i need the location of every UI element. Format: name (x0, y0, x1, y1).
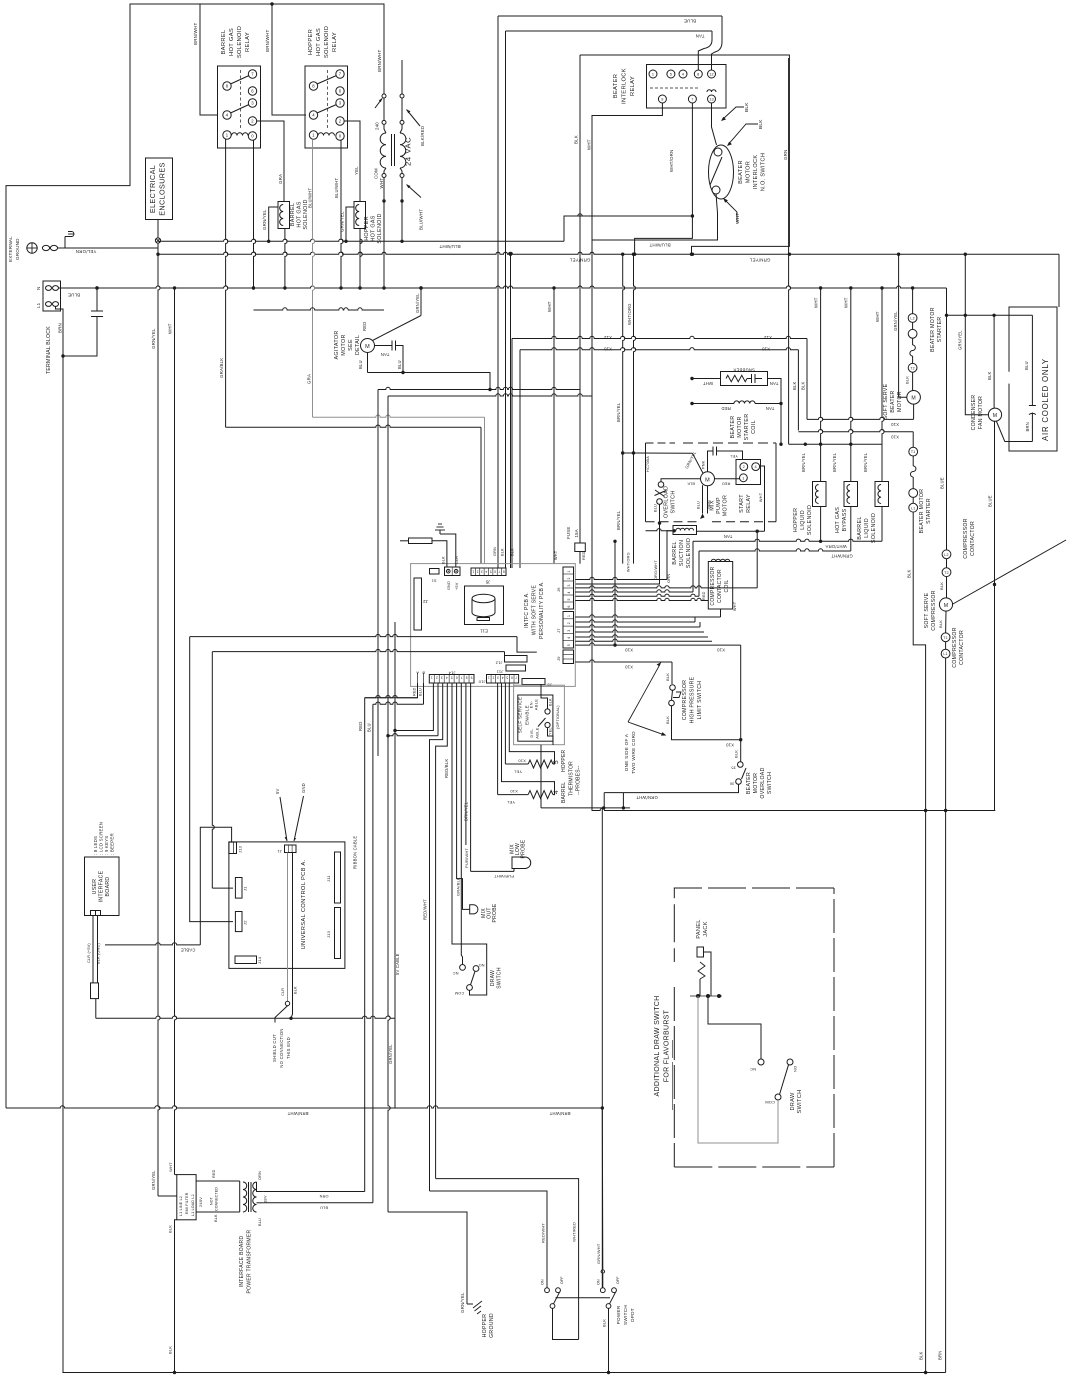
svg-text:RED: RED (721, 406, 730, 411)
svg-text:RED: RED (702, 591, 706, 600)
wire run y417 GRA (313, 415, 485, 417)
svg-text:BRN: BRN (1025, 422, 1030, 431)
resistor panel jack (698, 962, 705, 979)
svg-text:ORN: ORN (319, 1194, 328, 1198)
probe mix low (471, 857, 531, 871)
wire J14 pin7 to draw switch NC (461, 683, 462, 965)
wire overload to bus GRN/WHT (604, 784, 738, 792)
capacitor agitator (375, 345, 393, 347)
wire relay K1 pin 1 GRA/BLK down (226, 139, 228, 427)
svg-text:L1 LINE L2: L1 LINE L2 (179, 1196, 183, 1216)
wire hook to relay pin 12 (712, 16, 723, 70)
svg-text:J6: J6 (556, 587, 561, 592)
label box ELECTRICAL ENCLOSURES (146, 158, 173, 220)
svg-text:TAN: TAN (766, 406, 775, 411)
svg-text:240: 240 (375, 122, 380, 130)
svg-text:BRN/WHT: BRN/WHT (549, 1111, 570, 1116)
svg-text:RED/WHT: RED/WHT (541, 1223, 546, 1243)
svg-text:SOLENOID: SOLENOID (324, 26, 330, 58)
svg-text:HC70BA: HC70BA (646, 456, 650, 472)
svg-text:240V: 240V (198, 1197, 203, 1207)
wire J14 pin8 (465, 683, 467, 845)
wire BLK arrow 2 (729, 124, 759, 144)
wire pcb J2-line to control J2 (190, 634, 517, 636)
wire BLK GND (97, 916, 99, 983)
connector J7 strip (563, 612, 574, 649)
wire BLK bottom right (925, 811, 927, 1373)
wire GRN/YEL coil to bus (269, 207, 278, 241)
svg-text:ONE SIDE OF A: ONE SIDE OF A (624, 733, 629, 771)
node circled-X junction (155, 238, 160, 243)
svg-text:START: START (739, 494, 745, 513)
svg-text:SEE: SEE (348, 339, 354, 351)
svg-text:BLK: BLK (919, 1351, 924, 1360)
snubber (721, 372, 768, 386)
motor mix pump (701, 472, 715, 486)
svg-text:PERSONALITY PCB A.: PERSONALITY PCB A. (539, 581, 545, 639)
relay beater interlock (647, 65, 727, 109)
svg-text:BRN: BRN (938, 1351, 943, 1360)
svg-text:BRN/YEL: BRN/YEL (863, 452, 868, 472)
wire agitator run right (368, 373, 491, 390)
wire WHT arrow bottom (725, 200, 738, 223)
wire contactor coil bottom (720, 609, 722, 617)
svg-text:BLK: BLK (987, 371, 992, 380)
svg-text:L1: L1 (911, 506, 915, 510)
wire transformer 24V down to BLU/WHT bus (401, 178, 403, 242)
capacitor line filter (91, 316, 103, 318)
wire L1 from terminal block down left side (56, 306, 64, 1372)
svg-text:BRN/YEL: BRN/YEL (801, 452, 806, 472)
svg-text:BLUE: BLUE (988, 495, 993, 507)
svg-text:GRN/YEL: GRN/YEL (388, 1044, 393, 1064)
solenoid barrel suction (673, 526, 697, 535)
shield on uib wires (91, 983, 99, 999)
svg-text:1: 1 (742, 476, 744, 480)
svg-text:1: 1 (488, 676, 490, 680)
svg-text:BLU: BLU (697, 501, 701, 509)
svg-text:BLK: BLK (665, 673, 670, 681)
svg-text:COM: COM (455, 991, 464, 995)
svg-text:24 VAC: 24 VAC (404, 137, 413, 166)
svg-text:OVERLOAD: OVERLOAD (760, 767, 766, 798)
svg-text:CONTACTOR: CONTACTOR (959, 630, 965, 665)
wire bus lower left segment (541, 807, 630, 809)
svg-text:SWITCH: SWITCH (767, 772, 773, 794)
svg-text:1: 1 (431, 676, 433, 680)
svg-text:SUCTION: SUCTION (679, 540, 685, 566)
svg-text:WHT: WHT (844, 297, 849, 308)
pcb top fuse rect (409, 538, 433, 544)
wire bus BLU/WHT step up to interlock relay (564, 216, 694, 241)
transformer core (391, 134, 393, 166)
svg-text:BLU: BLU (419, 688, 423, 696)
svg-text:J1: J1 (243, 886, 248, 891)
wire self service feed (513, 683, 515, 685)
motor soft serve beater (907, 391, 921, 405)
connector J13 slot (335, 908, 341, 959)
svg-text:BRN/WHT: BRN/WHT (265, 30, 270, 52)
wire K2 contact 8-7 (317, 76, 337, 85)
svg-text:RED: RED (582, 551, 586, 560)
wire WHT/ORG feed right (634, 254, 636, 563)
wire J6 pin5 to solenoid return2 (575, 594, 699, 596)
wire J14 pin2 jog left (388, 734, 438, 736)
svg-text:HOT GAS: HOT GAS (371, 215, 377, 241)
svg-text:X10: X10 (510, 789, 518, 794)
wire from enclosures label to ground junction (157, 220, 159, 238)
svg-text:SWITCH: SWITCH (497, 967, 503, 989)
node hopper solenoid on bus (344, 240, 347, 243)
svg-text:BLK: BLK (442, 556, 446, 564)
svg-text:PROBE: PROBE (492, 903, 498, 922)
svg-text:J2: J2 (423, 599, 428, 604)
wire vertical GRN/YEL main (158, 243, 160, 1196)
svg-text:BLK: BLK (549, 698, 553, 706)
connector GND +5V (445, 567, 461, 576)
svg-text:COMPRESSOR: COMPRESSOR (710, 566, 716, 605)
svg-text:SOLENOID: SOLENOID (807, 505, 813, 535)
transformer tap circles (382, 94, 386, 98)
wire fan to BRN (997, 422, 1033, 442)
svg-text:GRN/YEL: GRN/YEL (958, 330, 963, 350)
wire capacitor branch (63, 317, 97, 357)
svg-text:CONTACTOR: CONTACTOR (970, 521, 976, 556)
svg-text:WHT: WHT (759, 492, 763, 502)
svg-text:X12: X12 (604, 335, 613, 340)
wire X10 line (520, 348, 798, 350)
svg-text:LIQUID: LIQUID (864, 518, 870, 538)
svg-text:ABLE: ABLE (535, 727, 540, 738)
switch self service enable (514, 685, 565, 745)
wire run y396 (388, 394, 592, 396)
hopper ground symbol (467, 1303, 473, 1305)
svg-text:PUMP: PUMP (716, 497, 722, 514)
svg-text:WHT/ORG: WHT/ORG (627, 552, 631, 572)
svg-text:L2: L2 (944, 553, 948, 557)
svg-text:6: 6 (494, 569, 496, 573)
wire coil bottom to blue bus (285, 229, 287, 289)
node transformer secondary on bus (400, 240, 403, 243)
svg-text:TAN: TAN (695, 34, 704, 39)
svg-text:X12: X12 (764, 335, 773, 340)
svg-text:GRN/YEL: GRN/YEL (415, 293, 420, 313)
svg-text:BLK: BLK (294, 986, 298, 994)
wire filter to bottom bus (175, 1174, 177, 1176)
coil of interlock relay (707, 90, 716, 92)
svg-text:1: 1 (567, 615, 571, 617)
svg-text:GRA/BLK: GRA/BLK (219, 358, 224, 378)
wire beater starter top to air box (946, 288, 948, 315)
wire snubber right (768, 379, 782, 404)
svg-text:WITH SOFT SERVE: WITH SOFT SERVE (532, 585, 538, 636)
wire nested vertical x378 (377, 390, 379, 757)
svg-text:WHT/ORN: WHT/ORN (669, 150, 674, 172)
wire J14 pin9 to mix low probe (470, 683, 472, 871)
wire GRA from relay K1 pin 2 to coil (257, 121, 285, 202)
svg-text:BLU: BLU (258, 1218, 262, 1226)
svg-text:SWITCH: SWITCH (623, 1305, 628, 1325)
svg-text:BLK: BLK (687, 481, 695, 485)
pcb universal control (229, 842, 345, 969)
svg-text:J12: J12 (495, 661, 503, 666)
svg-text:BLK (GND): BLK (GND) (97, 942, 101, 964)
wire GRN/YEL into filter (158, 1195, 177, 1197)
svg-text:BRN/WHT: BRN/WHT (287, 1111, 308, 1116)
wire jog GRN to switch (580, 55, 789, 254)
svg-text:BLK: BLK (665, 716, 670, 724)
svg-text:BLK: BLK (938, 620, 943, 628)
svg-text:WHT: WHT (168, 323, 173, 334)
svg-text:BLK: BLK (905, 376, 910, 384)
wire pcb J12-line to control J1 (212, 649, 504, 651)
svg-text:DRAW: DRAW (490, 970, 496, 986)
svg-text:STARTER: STARTER (937, 317, 943, 343)
pcb top ground (439, 530, 441, 534)
svg-text:HOT GAS: HOT GAS (835, 507, 841, 533)
svg-text:L1: L1 (943, 652, 947, 656)
svg-text:DETAIL: DETAIL (355, 335, 361, 355)
svg-text:4: 4 (755, 465, 757, 469)
svg-text:BARREL: BARREL (672, 541, 678, 564)
wire interlock relay pin13 to switch (712, 103, 717, 145)
svg-text:M: M (993, 413, 998, 419)
svg-text:BLK: BLK (168, 1225, 173, 1233)
coil beater motor starter (734, 401, 755, 404)
svg-text:GRN/YEL: GRN/YEL (749, 258, 770, 263)
svg-text:12: 12 (709, 73, 714, 77)
svg-text:N: N (36, 287, 41, 290)
svg-text:NC: NC (453, 971, 459, 975)
contact T1 L1 compressor (941, 633, 950, 642)
wire BLK arrow top (723, 107, 745, 120)
wire bus BRN/WHT (6, 1106, 602, 1108)
svg-text:SELF SERVICE: SELF SERVICE (518, 697, 523, 733)
panel jack (697, 947, 704, 957)
svg-text:BLK: BLK (168, 1346, 173, 1354)
svg-text:J1: J1 (277, 849, 282, 854)
svg-text:NO: NO (793, 1066, 798, 1072)
wire x623 drop (622, 793, 624, 808)
svg-text:EXTERNAL: EXTERNAL (8, 236, 13, 262)
svg-text:BLU: BLU (358, 360, 363, 369)
wire J6 pin1 ORN (575, 577, 667, 579)
svg-text:ON: ON (597, 1279, 601, 1285)
wire agitator diagonal GRN/YEL (373, 316, 422, 341)
svg-text:OFF: OFF (560, 1276, 564, 1284)
svg-text:ORN: ORN (258, 1171, 262, 1180)
svg-text:TERMINAL BLOCK: TERMINAL BLOCK (46, 326, 52, 374)
svg-text:GROUND: GROUND (15, 238, 20, 260)
svg-text:FOR FLAVORBURST: FOR FLAVORBURST (664, 1009, 671, 1082)
svg-text:BLU: BLU (320, 1206, 328, 1210)
svg-text:X10: X10 (762, 347, 771, 352)
wire L1 down jog (913, 512, 925, 810)
svg-text:LIMIT SWITCH: LIMIT SWITCH (697, 681, 703, 720)
svg-text:BLUE: BLUE (684, 19, 696, 24)
svg-text:BLU/WHT: BLU/WHT (419, 209, 424, 230)
motor soft serve compressor (939, 598, 952, 611)
svg-text:COMPRESSOR: COMPRESSOR (682, 680, 688, 720)
svg-text:WHT: WHT (875, 311, 880, 322)
wire run y389.5 (378, 387, 580, 389)
svg-text:WHT/ORA: WHT/ORA (825, 544, 846, 549)
svg-text:COMPRESSOR: COMPRESSOR (931, 590, 937, 630)
svg-text:3: 3 (441, 676, 443, 680)
svg-text:SOFT SERVE: SOFT SERVE (924, 592, 930, 628)
svg-text:WHT: WHT (379, 178, 384, 189)
wire mix pump GRN/YEL diagonal (693, 453, 703, 473)
connector J14 ucp (235, 956, 257, 964)
svg-text:TWO WIRE CORD: TWO WIRE CORD (631, 731, 636, 774)
solenoid hot gas bypass (844, 482, 858, 507)
svg-text:BLK: BLK (939, 582, 944, 590)
svg-text:STARTER: STARTER (744, 414, 750, 441)
switch power left (545, 1288, 550, 1293)
svg-text:HOT GAS: HOT GAS (316, 28, 322, 56)
svg-text:X10: X10 (717, 648, 726, 653)
svg-text:MOTOR: MOTOR (897, 391, 903, 412)
svg-text:CONTACTOR: CONTACTOR (717, 569, 723, 603)
svg-text:3: 3 (567, 630, 571, 632)
svg-text:DRAW: DRAW (790, 1092, 796, 1111)
svg-text:BLK: BLK (574, 135, 579, 144)
svg-text:5: 5 (567, 644, 571, 646)
connector J8 (522, 679, 545, 685)
transformer 24 VAC primary lead (383, 4, 385, 94)
svg-text:2: 2 (567, 622, 571, 624)
starter contact T1 chain (909, 447, 918, 456)
svg-text:ON: ON (541, 1279, 545, 1285)
svg-text:J13: J13 (326, 930, 331, 938)
wire CLR +5V (92, 916, 94, 983)
wire X10 drop to overload (740, 645, 742, 761)
box power switch (553, 1308, 579, 1339)
svg-text:6: 6 (567, 605, 571, 607)
svg-text:BLK: BLK (792, 381, 797, 390)
wire compressor vertical BLUE (946, 315, 948, 550)
wire bus y808 left leg (540, 745, 542, 808)
svg-text:2: 2 (492, 676, 494, 680)
svg-text:YEL: YEL (354, 166, 359, 175)
emi filter (177, 1175, 196, 1220)
svg-text:5: 5 (490, 569, 492, 573)
wire J14 pin3 to power switch RED/WHT (430, 683, 443, 1191)
svg-text:4: 4 (446, 676, 448, 680)
svg-text:CONNECTED: CONNECTED (215, 1187, 219, 1211)
wire T1 to X10 (798, 430, 913, 432)
wire start relay right to suction line (761, 466, 765, 531)
svg-text:X10: X10 (891, 434, 900, 439)
svg-text:--PROBES--: --PROBES-- (576, 765, 582, 795)
svg-text:ENCLOSURES: ENCLOSURES (158, 162, 167, 216)
svg-text:S1: S1 (431, 579, 436, 583)
svg-text:13: 13 (709, 98, 714, 102)
svg-text:CLR: CLR (455, 556, 459, 564)
capacitor air cooled (1029, 405, 1036, 407)
svg-text:GRN: GRN (493, 547, 497, 556)
svg-text:GRN/YEL: GRN/YEL (262, 209, 267, 230)
svg-text:FAN MOTOR: FAN MOTOR (978, 396, 984, 429)
svg-text:L1 LOAD L2: L1 LOAD L2 (191, 1194, 195, 1216)
wire right pole up GRN/WHT (602, 1274, 604, 1288)
wire J14 pin5 to draw switch loop (452, 683, 487, 995)
svg-text:SOLENOID: SOLENOID (686, 538, 692, 568)
connector J11 (506, 665, 526, 671)
svg-text:ORG/WHT: ORG/WHT (654, 560, 658, 580)
probe mix out (470, 905, 478, 914)
svg-text:7: 7 (515, 676, 517, 680)
svg-text:M: M (911, 396, 916, 402)
svg-text:COIL: COIL (751, 420, 757, 434)
svg-text:BOARD: BOARD (105, 877, 111, 897)
wire shield pair from J1 top (287, 853, 289, 1002)
wire interlock region lower (564, 214, 692, 216)
connector small (430, 569, 440, 575)
svg-text:: 9 KEYS: : 9 KEYS (104, 836, 109, 855)
svg-text:BLU: BLU (367, 723, 372, 732)
svg-text:MOTOR: MOTOR (723, 495, 729, 516)
svg-text:HIGH PRESSURE: HIGH PRESSURE (690, 676, 696, 723)
nodes panel jack (696, 994, 700, 998)
svg-text:AIR COOLED ONLY: AIR COOLED ONLY (1041, 358, 1050, 441)
svg-text:RED: RED (413, 687, 417, 696)
svg-text:GRN/YEL: GRN/YEL (893, 311, 898, 331)
svg-text:4: 4 (553, 790, 560, 794)
svg-text:BLK: BLK (801, 381, 806, 390)
svg-text:BRN/YEL: BRN/YEL (616, 402, 621, 422)
svg-text:WHT: WHT (587, 139, 592, 150)
wire X12 line (512, 336, 807, 338)
wire K1 contact 4-3 (231, 105, 250, 114)
wire transformer COM down to blue bus (383, 178, 385, 289)
svg-text:DIS-: DIS- (529, 728, 534, 738)
starter contact L2 chain (908, 314, 917, 323)
enclosure flavorburst dashed box (673, 987, 675, 1167)
wire switch bottom down (592, 194, 718, 241)
wire left drops of blue/tan (497, 16, 499, 568)
svg-text:USER: USER (92, 879, 98, 895)
svg-text:COM: COM (374, 168, 379, 179)
svg-text:ADDITIONAL DRAW SWITCH: ADDITIONAL DRAW SWITCH (654, 996, 661, 1097)
svg-text:1: 1 (472, 569, 474, 573)
wire BRN/WHT drop to relay K2 pin 4 (272, 4, 306, 115)
svg-text:X10: X10 (625, 648, 634, 653)
wire run y427 GRA/BLK (226, 425, 481, 427)
svg-text:PROBE: PROBE (521, 839, 527, 858)
svg-text:J11: J11 (326, 875, 331, 882)
svg-text:3: 3 (567, 584, 571, 586)
svg-text:WHT: WHT (735, 212, 741, 224)
svg-text:POWER: POWER (616, 1305, 621, 1324)
svg-text:BLU/WHT: BLU/WHT (308, 188, 313, 208)
svg-text:X10: X10 (518, 759, 526, 764)
wire overload bottom to pcb BLU (575, 504, 659, 584)
external ground symbol (27, 243, 37, 253)
svg-text:RED: RED (362, 322, 367, 331)
svg-text:BLU/WHT: BLU/WHT (649, 243, 670, 248)
wire YEL from relay K2 pin 2 to coil (344, 121, 360, 202)
svg-text:BRN/YEL: BRN/YEL (616, 510, 621, 530)
svg-text:E11: E11 (480, 629, 488, 634)
svg-text:T1: T1 (911, 450, 916, 454)
svg-text:AGITATOR: AGITATOR (334, 330, 340, 359)
node barrel solenoid on bus (267, 240, 270, 243)
svg-text:FUSE: FUSE (566, 526, 571, 539)
relay K1 barrel hot gas solenoid relay (218, 66, 261, 148)
switch draw lower (460, 965, 466, 971)
svg-text:4: 4 (485, 569, 487, 573)
